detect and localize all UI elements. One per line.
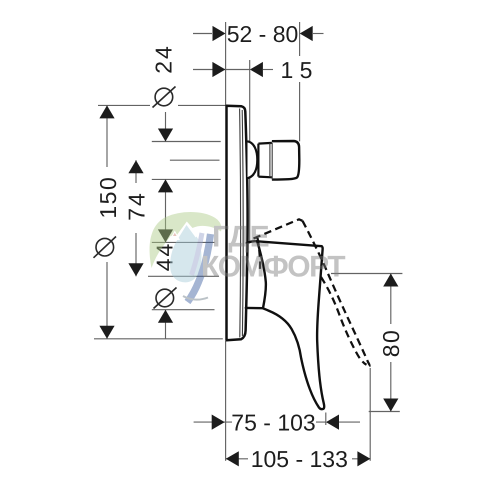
- svg-text:80: 80: [378, 329, 404, 358]
- ext line left x225.6 top: [225, 22, 227, 105]
- arrow 15 right: [250, 62, 263, 77]
- arrow 52-80 left: [213, 26, 226, 41]
- dia symbol for 150: [96, 238, 114, 256]
- arrow 74 bottom: [128, 263, 143, 276]
- lever handle solid: [246, 241, 324, 409]
- watermark logo light ribbon: [192, 233, 203, 275]
- arrow dia24 top: [158, 129, 173, 142]
- ext line x249.7: [249, 60, 251, 243]
- line y309.7: [152, 309, 215, 311]
- line y105.4: [98, 104, 226, 106]
- arrow 75-103 left: [212, 415, 225, 430]
- spout connector dome: [248, 141, 258, 178]
- ext line x325.8: [325, 413, 327, 426]
- dimension arrows black: [99, 26, 398, 467]
- arrow dia44 top: [158, 229, 173, 242]
- arrow 15 left: [212, 62, 225, 77]
- arrow dia150 top: [99, 105, 114, 118]
- dia24-44 vline mid: [165, 179, 167, 242]
- plate face inner thin lines: [240, 109, 244, 338]
- svg-text:КОМФОРТ: КОМФОРТ: [201, 251, 345, 284]
- watermark logo light blue patch: [170, 225, 201, 282]
- dim 105-133 line y458.8: [226, 458, 371, 460]
- watermark logo blue ribbon: [188, 234, 211, 302]
- dia symbol for 24: [155, 88, 173, 106]
- watermark overlay: [150, 212, 346, 302]
- line y179.4: [152, 178, 221, 180]
- dia symbol for 44: [156, 289, 174, 307]
- watermark logo small white peak: [170, 231, 181, 241]
- arrow dia44 bottom: [158, 310, 173, 323]
- dim 15 line: [193, 69, 250, 71]
- diameter symbols: [94, 87, 177, 309]
- dia150 vline x107: [106, 105, 108, 338]
- dimension lines thin gray: [94, 22, 402, 461]
- svg-text:75 - 103: 75 - 103: [231, 410, 315, 436]
- arrow dia24 bottom: [158, 179, 173, 192]
- dim80 top line y273.5: [331, 273, 402, 275]
- line y276.3: [148, 275, 219, 277]
- arrow 105-133 left: [226, 451, 239, 466]
- svg-text:24: 24: [151, 44, 177, 74]
- watermark logo coral peak: [173, 233, 177, 236]
- dim 52-80 tails: [193, 33, 212, 35]
- ext line x370.2: [369, 368, 371, 461]
- arrow dia150 bottom: [99, 326, 114, 339]
- spout connector body: [272, 141, 299, 180]
- ext line x299.6: [299, 22, 301, 141]
- fixture: wall plate: [227, 106, 248, 340]
- white gaps under dimension texts: [96, 24, 401, 468]
- dim 75-103 line y422.1: [194, 421, 326, 423]
- arrow 105-133 right: [357, 451, 370, 466]
- arrow 75-103 right: [326, 415, 339, 430]
- handle neck left edge: [257, 241, 266, 308]
- arrow 52-80 right: [300, 26, 313, 41]
- line y338.8: [94, 338, 223, 340]
- ext line left x225.6 bottom: [225, 341, 227, 461]
- arrow 80 top: [383, 274, 398, 287]
- dia44 vline bottom: [165, 310, 167, 339]
- dim80 bottom line y411.5: [369, 411, 400, 413]
- dim74 vline x136: [135, 160, 137, 276]
- dia24 vline x165.5: [165, 112, 167, 142]
- arrow 74 top: [128, 160, 143, 173]
- dim80 vline x390.8: [390, 274, 392, 412]
- svg-text:52 - 80: 52 - 80: [227, 21, 299, 47]
- svg-text:105 - 133: 105 - 133: [251, 446, 348, 472]
- arrow 80 bottom: [383, 399, 398, 412]
- svg-text:ГДЕ: ГДЕ: [212, 220, 270, 253]
- line y141.5: [152, 141, 221, 143]
- connector junction thin lines: [270, 143, 272, 180]
- watermark logo gray arc: [183, 296, 208, 300]
- dashed handle rotated position: [254, 219, 370, 366]
- spout connector small cylinder: [258, 143, 272, 177]
- watermark logo green leaf: [150, 212, 222, 268]
- svg-text:150: 150: [95, 176, 121, 219]
- watermark logo secondary ridge: [191, 237, 202, 245]
- line y242.4: [152, 241, 215, 243]
- dimension texts: [95, 21, 404, 472]
- line y160.2: [170, 159, 220, 161]
- svg-text:1 5: 1 5: [281, 57, 313, 83]
- svg-text:74: 74: [123, 191, 149, 221]
